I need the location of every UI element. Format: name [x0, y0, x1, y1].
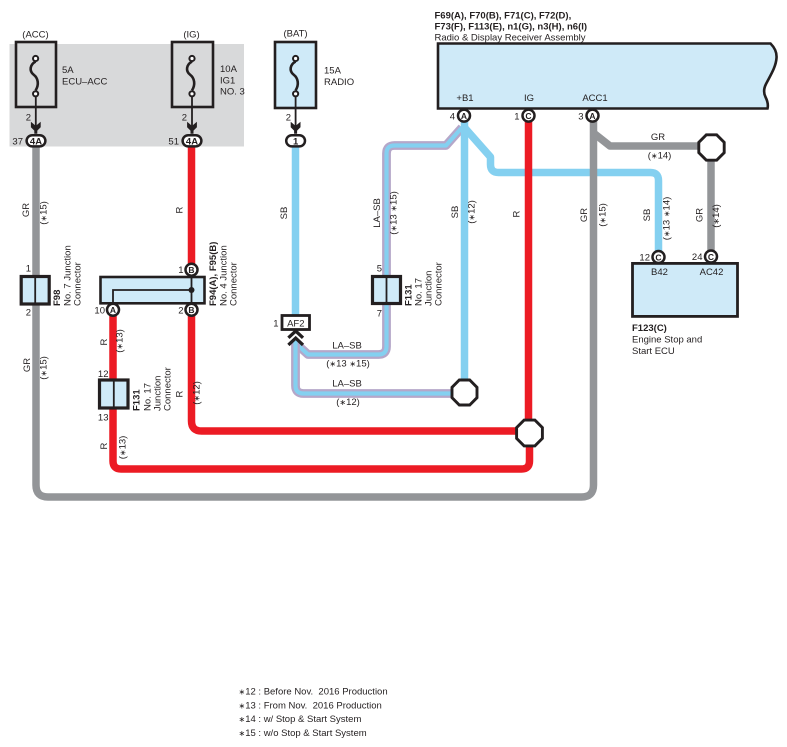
svg-text:Connector: Connector — [73, 262, 84, 306]
junction connector F94(A) F95(B) — [101, 277, 205, 303]
pin circle 3(A) ACC1 — [587, 110, 599, 122]
svg-text:1: 1 — [293, 137, 299, 148]
svg-text:(∗12): (∗12) — [467, 200, 478, 224]
junction connector F131 left — [100, 380, 129, 408]
pin circle 1(C) IG — [523, 110, 535, 122]
fuse ACC element — [31, 62, 38, 91]
wire GR main loop ACC fuse to ACC1 pin — [36, 120, 594, 497]
svg-text:IG: IG — [524, 93, 534, 104]
svg-text:B: B — [188, 265, 194, 275]
svg-text:(BAT): (BAT) — [283, 29, 307, 40]
fuse IG box — [172, 42, 213, 146]
pin circle 2(B) — [186, 304, 198, 316]
wire SB from BAT fuse to AF2 — [292, 148, 300, 316]
fuse BAT lead — [295, 97, 297, 130]
wire GR (*14) branch to octagon — [594, 133, 700, 146]
svg-text:4A: 4A — [186, 137, 198, 148]
connector oval 1 (BAT) — [286, 135, 305, 146]
wire R from IG fuse to junction connector B — [188, 148, 196, 265]
svg-text:1: 1 — [178, 265, 183, 276]
svg-text:51: 51 — [168, 136, 179, 147]
svg-text:10: 10 — [94, 305, 105, 316]
octagon connector (R) — [517, 420, 543, 446]
svg-text:SB: SB — [642, 209, 653, 222]
wire R from IG pin to octagon top — [525, 120, 533, 420]
svg-text:∗13 : From Nov. 2016 Producti: ∗13 : From Nov. 2016 Production — [239, 700, 382, 711]
svg-text:F94(A), F95(B): F94(A), F95(B) — [208, 242, 219, 306]
svg-text:B: B — [188, 305, 194, 315]
svg-text:LA–SB: LA–SB — [332, 379, 362, 390]
svg-text:Connector: Connector — [434, 262, 445, 306]
fuse ACC arrowhead — [31, 122, 41, 134]
svg-text:C: C — [525, 111, 531, 121]
svg-text:NO. 3: NO. 3 — [220, 87, 245, 98]
svg-text:∗15 : w/o Stop & Start System: ∗15 : w/o Stop & Start System — [239, 728, 367, 739]
svg-text:(∗15): (∗15) — [39, 201, 50, 225]
svg-text:Radio & Display Receiver Assem: Radio & Display Receiver Assembly — [435, 33, 586, 44]
connector oval 4A (ACC) — [27, 135, 46, 146]
svg-text:(∗13 ∗14): (∗13 ∗14) — [662, 197, 673, 241]
svg-text:R: R — [175, 206, 186, 213]
svg-text:F73(F), F113(E), n1(G), n3(H),: F73(F), F113(E), n1(G), n3(H), n6(I) — [435, 22, 588, 33]
svg-text:10A: 10A — [220, 64, 238, 75]
svg-text:12: 12 — [98, 369, 109, 380]
wire GR (*14) octagon to AC42 — [707, 161, 715, 251]
svg-text:GR: GR — [651, 132, 665, 143]
svg-text:12: 12 — [639, 253, 650, 264]
svg-text:C: C — [655, 252, 661, 262]
svg-text:(∗15): (∗15) — [39, 356, 50, 380]
fuse IG lead — [191, 97, 193, 130]
svg-text:F98: F98 — [52, 290, 63, 306]
svg-text:C: C — [708, 252, 714, 262]
svg-text:A: A — [589, 111, 595, 121]
wire SB (*12) from +B1 pin to octagon — [461, 120, 469, 380]
svg-text:Connector: Connector — [229, 262, 240, 306]
svg-text:Connector: Connector — [163, 367, 174, 411]
svg-text:GR: GR — [21, 203, 32, 217]
svg-text:AF2: AF2 — [287, 319, 304, 330]
svg-text:(∗12): (∗12) — [336, 397, 360, 408]
svg-text:1: 1 — [273, 319, 278, 330]
svg-text:15A: 15A — [324, 66, 342, 77]
svg-text:(∗13 ∗15): (∗13 ∗15) — [389, 191, 400, 235]
svg-text:(∗14): (∗14) — [711, 204, 722, 228]
svg-text:F131: F131 — [132, 389, 143, 411]
wire LA-SB (*12) from AF2 chevron to octagon — [296, 341, 453, 394]
svg-text:(IG): (IG) — [183, 30, 199, 41]
engine stop and start ECU box F123 — [633, 263, 738, 316]
svg-text:(∗14): (∗14) — [648, 151, 672, 162]
pin circle 4(A) +B1 — [458, 110, 470, 122]
shield chevrons below AF2 — [288, 331, 303, 345]
svg-text:ECU–ACC: ECU–ACC — [62, 76, 108, 87]
pin circle 24(C) AC42 — [705, 251, 717, 263]
svg-text:2: 2 — [26, 113, 31, 124]
svg-text:3: 3 — [578, 111, 583, 122]
svg-text:SB: SB — [279, 207, 290, 220]
svg-text:LA–SB: LA–SB — [372, 198, 383, 228]
svg-text:5A: 5A — [62, 65, 74, 76]
svg-text:F69(A), F70(B), F71(C), F72(D): F69(A), F70(B), F71(C), F72(D), — [435, 11, 572, 22]
svg-text:13: 13 — [98, 413, 109, 424]
svg-text:(∗13): (∗13) — [115, 329, 126, 353]
svg-text:R: R — [512, 210, 523, 217]
octagon connector (LA-SB/SB *12) — [452, 380, 477, 405]
octagon connector (GR *14) — [699, 135, 724, 160]
svg-text:LA–SB: LA–SB — [332, 341, 362, 352]
ignition switch gray block — [10, 44, 245, 147]
fuse IG element — [187, 62, 194, 91]
svg-text:R: R — [175, 390, 186, 397]
svg-text:(∗13 ∗15): (∗13 ∗15) — [326, 359, 370, 370]
svg-text:R: R — [99, 442, 110, 449]
svg-text:(ACC): (ACC) — [22, 30, 48, 41]
svg-text:2: 2 — [286, 113, 291, 124]
pin circle 10(A) — [107, 304, 119, 316]
svg-text:RADIO: RADIO — [324, 77, 354, 88]
radio & display receiver assembly box — [438, 44, 777, 109]
wire SB (*13 *14) from +B1 pin to B42 — [464, 127, 659, 251]
svg-text:4: 4 — [450, 111, 455, 122]
svg-text:A: A — [461, 111, 467, 121]
svg-text:24: 24 — [692, 252, 703, 263]
pin circle 1(B) — [186, 264, 198, 276]
svg-text:AC42: AC42 — [700, 267, 724, 278]
fuse BAT box — [275, 42, 316, 146]
fuse BAT element — [291, 62, 298, 91]
svg-text:(∗15): (∗15) — [598, 203, 609, 227]
pin circle 12(C) B42 — [653, 251, 665, 263]
svg-text:SB: SB — [450, 206, 461, 219]
svg-text:GR: GR — [579, 208, 590, 222]
svg-text:Start ECU: Start ECU — [632, 346, 675, 357]
svg-text:∗12 : Before Nov. 2016 Produc: ∗12 : Before Nov. 2016 Production — [239, 687, 388, 698]
svg-text:A: A — [110, 305, 116, 315]
svg-text:(∗13): (∗13) — [118, 436, 129, 460]
junction connector F131 right — [373, 277, 401, 304]
svg-text:(∗12): (∗12) — [192, 381, 203, 405]
svg-text:1: 1 — [514, 111, 519, 122]
svg-text:∗14 : w/ Stop & Start System: ∗14 : w/ Stop & Start System — [239, 714, 362, 725]
svg-text:GR: GR — [695, 208, 706, 222]
svg-text:Engine Stop and: Engine Stop and — [632, 335, 702, 346]
svg-text:R: R — [99, 338, 110, 345]
svg-text:2: 2 — [178, 305, 183, 316]
wire R (*13) from pin 10(A) through F131 to octagon bottom — [113, 314, 530, 469]
svg-text:F123(C): F123(C) — [632, 323, 667, 334]
svg-text:IG1: IG1 — [220, 75, 235, 86]
svg-text:7: 7 — [377, 309, 382, 320]
svg-text:B42: B42 — [651, 267, 668, 278]
junction connector F98 — [21, 277, 49, 305]
fuse BAT arrowhead — [291, 122, 301, 134]
fuse IG arrowhead — [187, 122, 197, 134]
wire R (*12) from pin 2(B) to octagon — [192, 314, 518, 431]
fuse ACC box — [16, 42, 56, 146]
svg-text:1: 1 — [26, 264, 31, 275]
svg-text:2: 2 — [26, 308, 31, 319]
svg-text:37: 37 — [12, 136, 23, 147]
connector oval 4A (IG) — [183, 135, 202, 146]
svg-text:5: 5 — [377, 264, 382, 275]
fuse ACC lead — [35, 97, 37, 130]
svg-text:+B1: +B1 — [456, 93, 473, 104]
wire LA-SB (*13 *15) from AF2 chevron to F131 to +B1 — [296, 128, 463, 355]
svg-text:2: 2 — [182, 113, 187, 124]
svg-text:ACC1: ACC1 — [582, 93, 607, 104]
connector AF2 — [282, 316, 310, 330]
svg-text:GR: GR — [22, 358, 33, 372]
svg-text:4A: 4A — [30, 137, 42, 148]
